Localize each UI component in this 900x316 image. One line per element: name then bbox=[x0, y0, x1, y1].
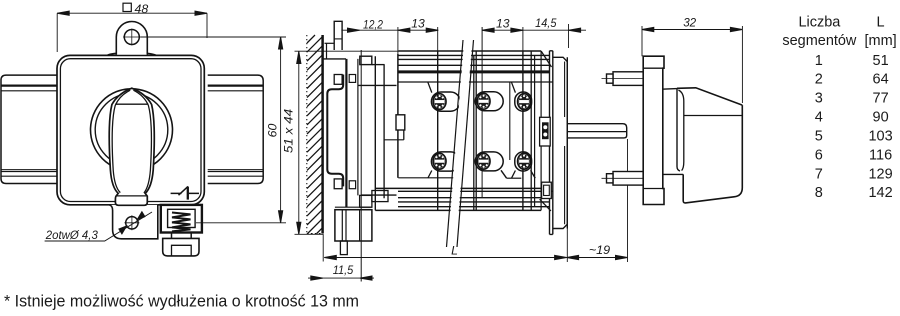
svg-text:116: 116 bbox=[869, 147, 892, 163]
body band lines bottom bbox=[375, 187, 549, 189]
terminal funnel top-right bbox=[512, 82, 516, 92]
segment divider x541.1 bbox=[540, 51, 542, 210]
terminal skirt 1 bbox=[454, 170, 459, 178]
terminal screw top-middle bbox=[477, 93, 490, 109]
handle base inner line bbox=[116, 195, 147, 197]
bracket verticals pair bbox=[346, 59, 347, 207]
segment divider x403.8 (notch edge) bbox=[403, 115, 405, 140]
terminal funnel top-left bbox=[428, 82, 432, 92]
segment divider x482.1 (with ext) bbox=[481, 27, 483, 198]
dim 32: line bbox=[642, 29, 743, 31]
front plate outer outline bbox=[57, 55, 204, 204]
right terminal box inner lines bbox=[208, 84, 263, 86]
clamp foot slab bbox=[163, 238, 199, 256]
clamp block (side) bbox=[335, 210, 372, 241]
segment divider x437.7 (with ext) bbox=[437, 27, 439, 51]
dim top chain left: line bbox=[341, 29, 438, 31]
body top lid line bbox=[399, 50, 542, 52]
svg-text:[mm]: [mm] bbox=[864, 33, 896, 49]
dim 60: extension lines bbox=[141, 37, 287, 223]
flange tab lines bbox=[643, 68, 663, 188]
flange plate bbox=[643, 56, 664, 204]
bracket step line bbox=[372, 64, 385, 66]
stud bottom bbox=[613, 172, 643, 186]
handle outline bbox=[109, 88, 154, 205]
terminal oval top-right bbox=[515, 92, 532, 111]
break line right bbox=[457, 40, 474, 247]
dim 11.5: ext right (long line already) line bbox=[308, 277, 374, 279]
dim ~19: line bbox=[567, 257, 628, 259]
left terminal box inner lines bbox=[2, 84, 58, 86]
clamp foot tongue bbox=[172, 245, 192, 255]
svg-text:129: 129 bbox=[868, 166, 892, 182]
svg-text:2otwØ 4,3: 2otwØ 4,3 bbox=[45, 228, 98, 242]
rear tall plate bbox=[550, 51, 553, 235]
left column line bottom bbox=[361, 194, 396, 196]
svg-text:13: 13 bbox=[411, 17, 425, 31]
mounting panel hatch bbox=[307, 35, 322, 234]
body bold band top bbox=[398, 70, 550, 73]
segment divider x384 bbox=[383, 65, 385, 199]
svg-text:48: 48 bbox=[135, 2, 149, 16]
knob right and bottom outline bbox=[683, 105, 742, 203]
knob ring outer circle bbox=[91, 89, 173, 171]
terminal screw top-right bbox=[518, 94, 531, 110]
svg-text:142: 142 bbox=[868, 185, 892, 201]
knob face line bbox=[684, 115, 743, 117]
svg-text:~19: ~19 bbox=[589, 243, 610, 257]
ear hole bottom bbox=[126, 217, 138, 229]
front plate inner line bbox=[60, 59, 201, 202]
clamp screw foot bbox=[340, 241, 347, 255]
ear hole bottom center marks bbox=[124, 215, 139, 230]
dim top chain right: line bbox=[482, 29, 586, 31]
terminal oval bottom-middle bbox=[475, 152, 503, 171]
terminal oval top-middle bbox=[475, 92, 503, 111]
panel front face bbox=[321, 35, 324, 234]
terminal shelf segment 1 bbox=[398, 177, 454, 179]
svg-text:Liczba: Liczba bbox=[798, 15, 841, 31]
shaft mid line bbox=[567, 131, 626, 133]
bottom mounting ear bbox=[109, 205, 158, 239]
leader 2otw: shelf and line bbox=[45, 212, 152, 241]
divider connector bbox=[384, 139, 404, 141]
knob inner edge arc bbox=[678, 90, 683, 171]
svg-text:12,2: 12,2 bbox=[363, 18, 383, 32]
clamp upper rect A bbox=[360, 195, 372, 207]
right terminal box of switch body bbox=[208, 75, 264, 183]
knob rear face bbox=[677, 89, 680, 171]
dim L: line bbox=[324, 257, 566, 259]
panel rear edge (dotted) bbox=[306, 35, 308, 234]
rear block inner edge bbox=[564, 62, 566, 225]
clip square top B bbox=[349, 75, 355, 83]
panel bottom dotted edge bbox=[307, 233, 323, 235]
dim 14.5 right ext bbox=[568, 24, 570, 48]
plate top edge (side view) bbox=[325, 42, 335, 44]
segment divider x531.2 bbox=[530, 51, 532, 210]
clip square bottom A bbox=[334, 179, 342, 189]
segment divider x397.9 (with ext) bbox=[397, 27, 399, 54]
dim 60: line bbox=[280, 37, 282, 223]
dim sq48: line bbox=[57, 12, 207, 14]
bracket vertical right bbox=[357, 59, 359, 196]
ear hole top center marks bbox=[123, 29, 141, 46]
ear hole top bbox=[124, 30, 139, 45]
left column line top bbox=[358, 84, 397, 86]
extension line 51x44 bottom bbox=[295, 233, 324, 235]
bracket step block bbox=[360, 56, 372, 64]
dim sq48: extension lines bbox=[57, 13, 207, 52]
clamp upper rect B bbox=[372, 191, 388, 202]
terminal screw bottom-left bbox=[433, 153, 446, 169]
clamp inner window bbox=[168, 209, 196, 227]
plate front layer vertical bbox=[326, 43, 328, 59]
svg-text:* Istnieje możliwość wydłużeni: * Istnieje możliwość wydłużenia o krotno… bbox=[4, 292, 359, 311]
svg-text:51 x 44: 51 x 44 bbox=[282, 109, 296, 153]
svg-text:L: L bbox=[451, 244, 458, 258]
terminal skirt 3 bbox=[531, 170, 536, 178]
svg-text:32: 32 bbox=[683, 16, 696, 30]
svg-text:14,5: 14,5 bbox=[535, 16, 556, 30]
clamp spring bbox=[172, 213, 191, 232]
spring clip hook bbox=[327, 75, 343, 187]
clamp frame (front view) bbox=[161, 205, 202, 233]
segment divider x375 bbox=[374, 56, 376, 210]
switch mini-symbol on plate bbox=[171, 186, 199, 195]
knob neck bottom bbox=[662, 173, 683, 175]
terminal funnel bottom-right bbox=[512, 171, 516, 179]
svg-text:5: 5 bbox=[815, 128, 823, 144]
latch detail lower bbox=[542, 182, 552, 198]
svg-text:7: 7 bbox=[815, 166, 823, 182]
svg-text:64: 64 bbox=[873, 72, 889, 88]
casing notch clip bbox=[396, 115, 405, 130]
rear cap chamfer bottom bbox=[540, 199, 551, 211]
ear skirt dome (top) bbox=[108, 53, 156, 55]
svg-text:4: 4 bbox=[815, 110, 823, 126]
latch detail upper bbox=[540, 117, 551, 146]
segment divider x473.8 bbox=[473, 55, 475, 210]
mounting ear top bbox=[116, 22, 147, 55]
svg-text:6: 6 bbox=[815, 147, 823, 163]
dim 32: ext lines bbox=[642, 26, 742, 103]
rear face line with ext bbox=[566, 57, 568, 228]
svg-text:51: 51 bbox=[873, 53, 889, 69]
terminal screw top-left bbox=[433, 94, 446, 110]
svg-text:60: 60 bbox=[265, 124, 279, 138]
clamp housing lines (side) bbox=[335, 207, 372, 210]
plate back vertical / ext line bbox=[360, 50, 362, 282]
terminal screw bottom-right bbox=[518, 153, 531, 169]
terminal funnel bottom-left bbox=[428, 171, 432, 179]
left terminal box of switch body bbox=[1, 75, 58, 183]
segment divider x509.8 bbox=[509, 82, 511, 160]
knob ring inner circle bbox=[95, 94, 168, 167]
handle inner contour left bbox=[112, 90, 130, 192]
svg-text:2: 2 bbox=[815, 72, 823, 88]
svg-text:13: 13 bbox=[496, 17, 510, 31]
rear cap chamfer top bbox=[541, 51, 551, 67]
extension line 51x44 top bbox=[295, 50, 399, 52]
terminal oval top-left bbox=[431, 92, 460, 111]
stud top bbox=[613, 72, 643, 86]
terminal oval bottom-right bbox=[515, 152, 532, 171]
terminal skirt 2 bbox=[501, 170, 507, 178]
break line left bbox=[447, 40, 464, 247]
terminal shelf segment 2 bbox=[507, 177, 522, 179]
clamp foot stem bbox=[172, 233, 192, 239]
handle chord line bbox=[115, 103, 148, 105]
knob top outline bbox=[677, 88, 742, 105]
svg-text:8: 8 bbox=[815, 185, 823, 201]
svg-text:11,5: 11,5 bbox=[333, 263, 354, 277]
handle inner contour right bbox=[133, 90, 151, 193]
dim sq48: square symbol bbox=[123, 3, 131, 11]
svg-text:L: L bbox=[877, 15, 885, 31]
ear tab hole line bbox=[334, 38, 342, 40]
bracket top edge bbox=[323, 58, 346, 60]
body band lines top bbox=[398, 54, 550, 56]
segment divider x476.2 bbox=[475, 51, 477, 210]
svg-text:segmentów: segmentów bbox=[782, 33, 857, 49]
shaft bbox=[567, 124, 626, 138]
terminal oval bottom-left bbox=[431, 152, 460, 171]
shaft end ext line bbox=[627, 139, 629, 262]
clamp block inner verticals bbox=[342, 210, 359, 241]
knob neck top bbox=[662, 88, 677, 91]
svg-text:103: 103 bbox=[868, 128, 892, 144]
break gap mask bbox=[448, 40, 473, 247]
terminal screw bottom-middle bbox=[477, 153, 490, 169]
rear housing block bbox=[553, 57, 568, 228]
segment divider x522.9 (with ext) bbox=[522, 27, 524, 51]
svg-text:77: 77 bbox=[873, 91, 889, 107]
mounting ear side view (top tab) bbox=[334, 21, 342, 50]
dim L: ext left bbox=[322, 234, 324, 261]
clip square top A bbox=[334, 75, 342, 85]
svg-text:90: 90 bbox=[873, 110, 889, 126]
dim 51x44: line bbox=[298, 52, 300, 235]
clip square bottom B bbox=[349, 181, 355, 189]
svg-text:3: 3 bbox=[815, 91, 823, 107]
segment divider x534.6 bbox=[534, 55, 536, 206]
svg-text:1: 1 bbox=[815, 53, 823, 69]
